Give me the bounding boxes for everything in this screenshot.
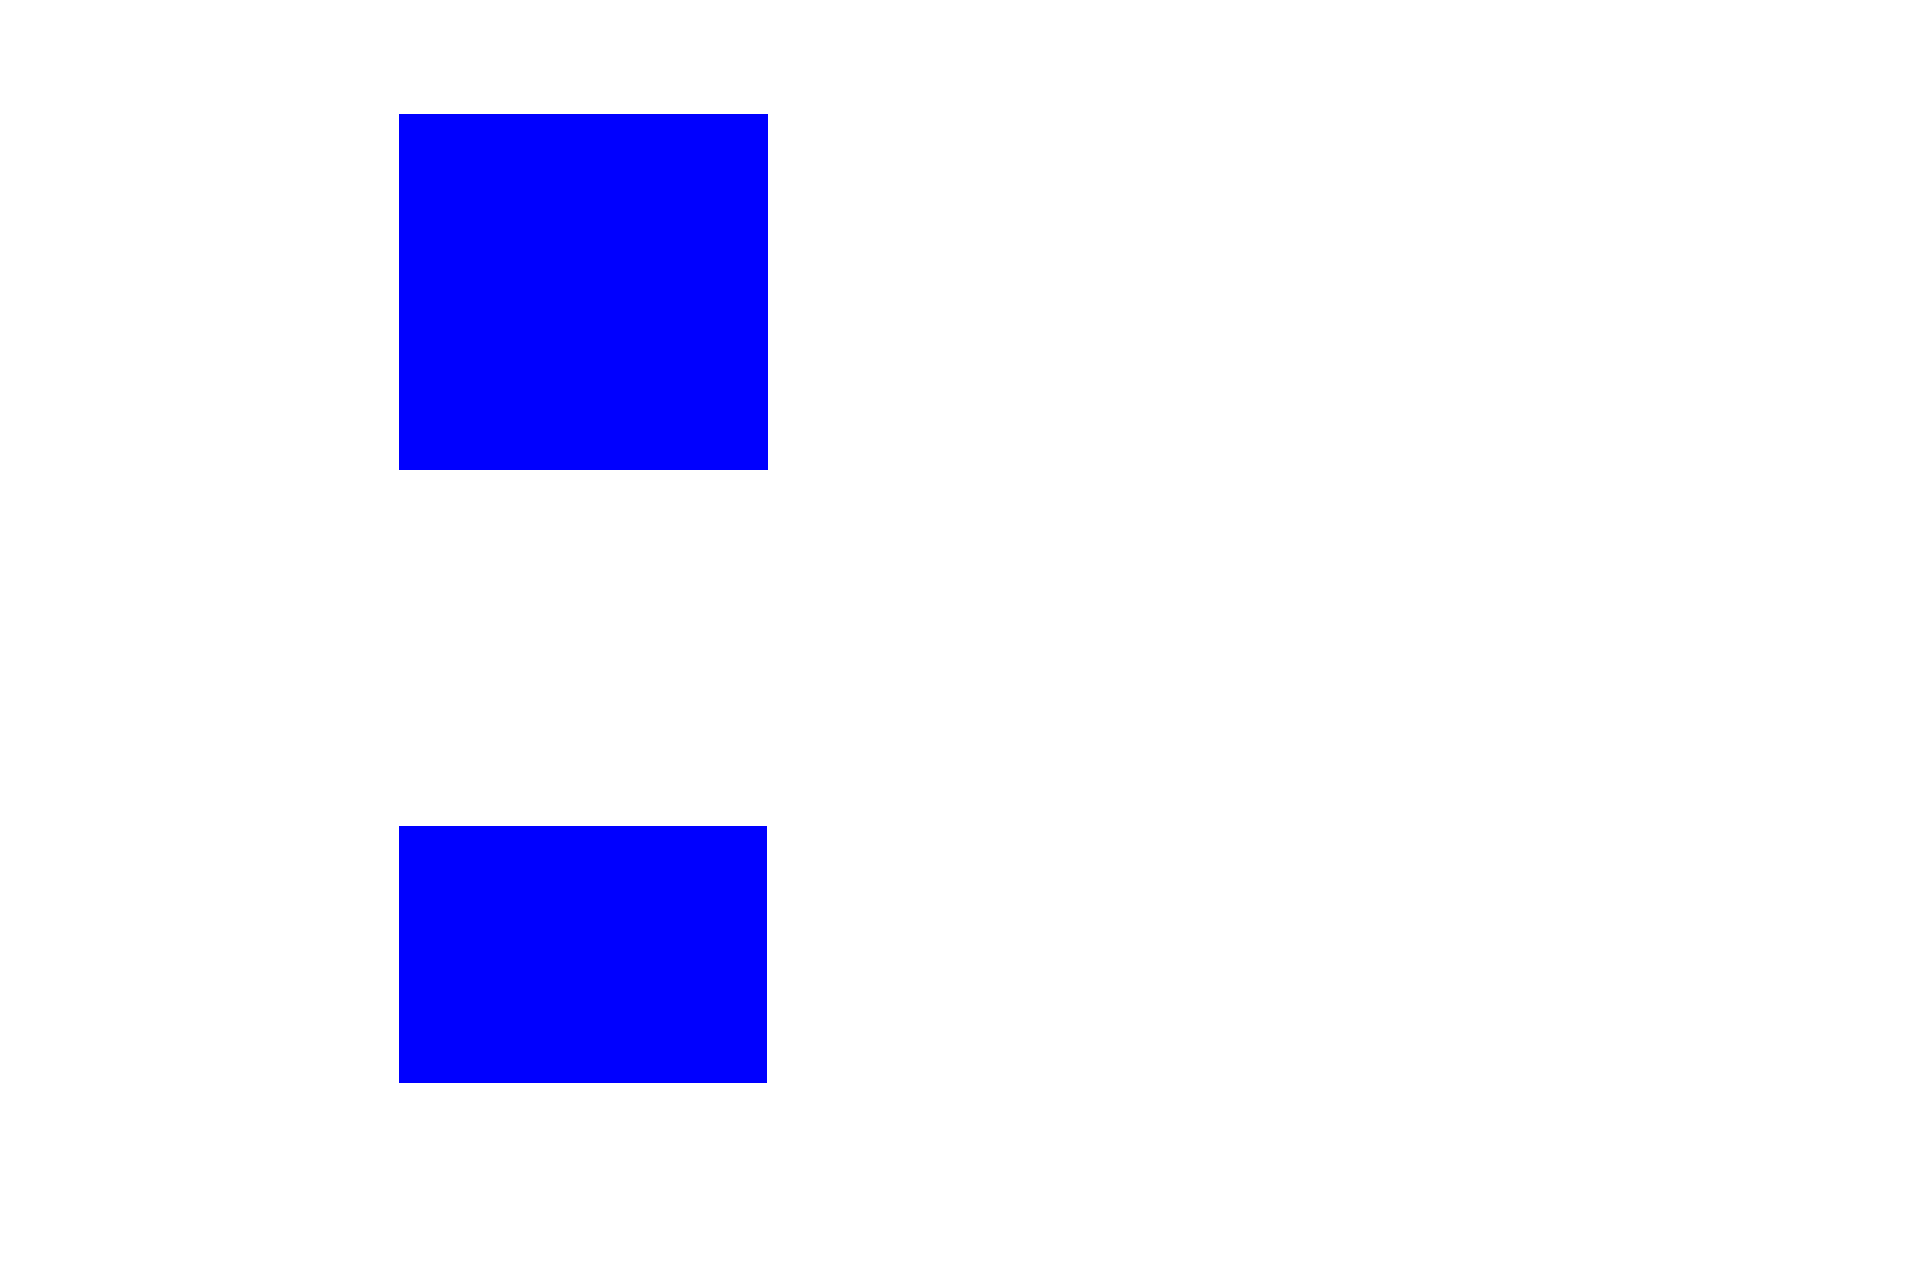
blue rectangle 2 (lower, wide) [399, 826, 767, 1083]
blue rectangle 1 (upper, near-square) [399, 114, 768, 470]
